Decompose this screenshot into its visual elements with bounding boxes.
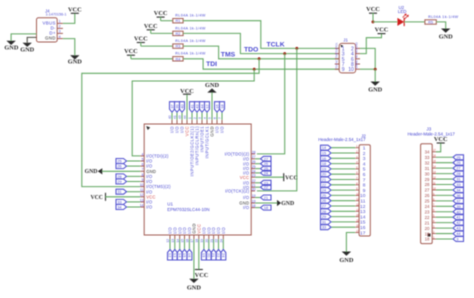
svg-text:18: 18 [219,104,224,109]
wire U1 left pin 28 [127,175,141,177]
pin stub U1 right VCC [251,176,255,178]
connector J1 (JTAG 2x5 header) body [339,43,355,73]
pin stub J2 pin 4 [355,163,359,165]
VCC supply (U1 top) [183,93,191,95]
pin stub J2 pin 5 [355,168,359,170]
flag node 31 (J2 pin 15) [321,219,332,224]
flag node 43 (U1 top) [195,102,200,113]
flag node 36 (J3 row 9) [453,193,464,198]
wire U1 left VCC [106,196,141,198]
svg-text:39: 39 [456,204,461,209]
wire J3 row 12 [436,211,453,213]
pin stub J1 pin 8 [356,63,360,65]
pin stub J1 pin 10 [356,68,360,70]
svg-text:28: 28 [425,182,430,187]
pin stub J2 pin 11 [355,200,359,202]
pin stub U1 bottom I/O [184,235,186,239]
svg-text:EPM7032SLC44-10N: EPM7032SLC44-10N [167,207,209,212]
svg-text:VCC: VCC [180,88,194,95]
pin stub U1 top I/O [181,120,183,124]
svg-text:8: 8 [363,183,366,189]
svg-text:29: 29 [117,179,122,184]
svg-text:Header-Male-2.54_1x17: Header-Male-2.54_1x17 [408,132,456,137]
svg-text:I/O: I/O [146,205,153,210]
wire J3 row 8 [436,189,453,191]
pin stub U1 right I/O(TDO)(2) [251,153,255,155]
wire U1 bottom pin 20 [208,239,210,249]
wire J1 pin2 to ground rail [360,48,375,69]
flag node 21 (U1 bottom) [211,250,216,261]
svg-text:24: 24 [221,253,226,258]
flag node 33 (J3 row 7) [453,182,464,187]
wire TDO: R2 to J1 pin3 [183,33,339,53]
wire U1 right pin 27 [255,158,260,160]
wire J2 pin 11 [331,200,355,202]
flag node 14 (U1 bottom) [177,250,182,261]
svg-text:33: 33 [425,155,430,160]
wire J3 row 2 [436,156,453,158]
pin1 marker J1 [340,45,343,48]
svg-text:2: 2 [363,151,366,157]
wire J3 row 4 [436,167,453,169]
pin stub U1 bottom I/O [213,235,215,239]
wire TCLK: R1 to J1 pin1 [183,21,339,49]
flag node 14 (J2 pin 1) [321,145,332,150]
svg-text:16: 16 [187,253,192,258]
svg-text:U1: U1 [167,201,173,206]
pin stub U1 top INPUT/GCLK1 [206,120,208,124]
svg-text:34: 34 [456,187,461,192]
pin stub J3 row 2 [432,156,436,158]
pin stub U1 left I/O [140,160,144,162]
svg-text:I/O(TCK)(2): I/O(TCK)(2) [225,189,249,194]
pin stub U1 bottom I/O [218,235,220,239]
flag node 26 (U1 left) [116,164,127,169]
flag node 16 (U1 top) [215,102,220,113]
flag node 41 (U1 top) [190,102,195,113]
ground (U1 bottom) [189,279,198,283]
flag node 28 (U1 left) [116,174,127,179]
svg-text:34: 34 [425,150,430,155]
flag node 20 (U1 bottom) [206,250,211,261]
svg-text:7: 7 [142,168,144,172]
pin stub U1 top INPUT/OE2/GCLK2(1) [191,120,193,124]
pin stub U1 left I/O [140,181,144,183]
wire VCC rail to U1 top [186,94,188,120]
pin stub U1 right I/O [251,172,255,174]
pin stub U1 right I/O [251,168,255,170]
svg-text:RL04A 1k-1/4W: RL04A 1k-1/4W [175,52,206,56]
svg-text:21: 21 [425,220,430,225]
svg-text:4: 4 [363,161,366,167]
svg-text:33: 33 [322,225,327,230]
VCC supply (R2) [147,29,155,31]
wire VCC stem R4 [130,55,132,59]
svg-text:14: 14 [360,214,366,220]
svg-text:TMS: TMS [335,53,338,58]
pin stub U1 top VCC [186,120,188,124]
svg-text:13: 13 [360,209,366,215]
svg-text:25: 25 [456,155,461,160]
pin stub J4 pin 3 [57,32,63,34]
junction TCLK [295,47,298,50]
svg-text:21: 21 [322,177,327,182]
pin stub U1 left VCC [140,196,144,198]
wire J3 row 9 [436,194,453,196]
pin stub J2 pin 10 [355,194,359,196]
wire VCC stem R3 [140,43,142,47]
pin stub J3 row 15 [432,227,436,229]
wire U1 bottom VCC down [198,239,200,269]
flag node 26 (U1 right) [261,161,272,166]
resistor R4 [173,57,183,61]
flag node 19 (J2 pin 5) [321,166,332,171]
flag node 20 (J2 pin 6) [321,172,332,177]
wire U1 left pin 31 [127,191,141,193]
pin stub U1 left I/O [140,191,144,193]
junction TDO [283,52,286,55]
pin stub U1 left I/O [140,206,144,208]
wire U1 right GND [255,202,277,204]
junction TMS [258,57,261,60]
wire to U1 top pin 172 [171,112,173,120]
svg-text:18: 18 [322,161,327,166]
wire VCC to R2 [151,32,173,34]
svg-text:6: 6 [142,163,144,167]
pin stub U1 left I/O [140,175,144,177]
svg-text:10: 10 [140,183,144,187]
svg-text:31: 31 [425,166,430,171]
svg-text:GND: GND [20,47,34,54]
svg-text:22: 22 [322,182,327,187]
svg-text:22: 22 [264,185,269,190]
svg-text:NC: NC [356,59,359,63]
svg-text:11: 11 [140,188,144,192]
svg-text:RL04A 1k-1/4W: RL04A 1k-1/4W [175,14,206,18]
resistor R1 [173,19,183,23]
wire VCC stem R1 [160,17,162,21]
pin stub J3 row 11 [432,205,436,207]
wire U1 bottom pin 22 [218,239,220,249]
svg-text:27: 27 [322,204,327,209]
wire to U1 top pin 207 [206,112,208,120]
flag node 22 (U1 bottom) [216,250,221,261]
pin stub U1 right GND [251,202,255,204]
svg-text:32: 32 [425,160,430,165]
pin stub J4 pin 2 [57,27,63,29]
svg-text:31: 31 [456,177,461,182]
pin stub J1 pin 3 [335,53,339,55]
wire U1 bottom pin 19 [203,239,205,249]
svg-text:TMS: TMS [221,52,236,59]
svg-text:GND: GND [68,58,82,65]
svg-text:26: 26 [456,160,461,165]
svg-text:24: 24 [322,188,327,193]
pin stub J2 pin 6 [355,173,359,175]
svg-text:VCC: VCC [154,10,168,17]
connector J3 (Header-Male-2.54_1x17) body [421,144,433,244]
pin stub J1 pin 6 [356,58,360,60]
svg-text:VCC: VCC [90,195,103,201]
flag node 29 (J2 pin 14) [321,214,332,219]
pin stub J1 pin 2 [356,47,360,49]
wire J2 pin 15 [331,221,355,223]
wire VCC to R4 [131,58,173,60]
flag node 3 (J3 row 17) [453,237,464,242]
flag node 26 (J2 pin 11) [321,198,332,203]
wire LED cathode to R5 [404,21,425,23]
svg-text:GND: GND [281,201,294,207]
flag node 27 (U1 right) [261,156,272,161]
svg-text:J1: J1 [343,37,348,42]
svg-text:40: 40 [179,104,184,109]
pin stub J3 row 6 [432,178,436,180]
svg-text:I/O: I/O [243,195,250,200]
svg-text:34: 34 [117,205,122,210]
flag node 25 (J2 pin 10) [321,193,332,198]
flag node 12 (U1 bottom) [168,250,173,261]
svg-text:NC: NC [335,59,338,63]
svg-text:RL04A 1k-1/4W: RL04A 1k-1/4W [175,39,206,43]
svg-text:GND: GND [439,33,453,40]
svg-text:VCC: VCC [285,175,298,181]
ground (J4 shield1) [6,41,15,45]
flag node 43 (J3 row 15) [453,226,464,231]
svg-text:VCC: VCC [68,6,82,13]
pin stub J4 pin 4 [57,38,63,40]
wire U1 bottom GND down [193,239,195,279]
svg-text:7: 7 [363,177,366,183]
svg-text:28: 28 [252,150,256,154]
svg-text:29: 29 [322,214,327,219]
svg-text:41: 41 [456,215,461,220]
VCC supply (U1 left) [105,193,107,201]
svg-text:Header-Male-2.54_1x17: Header-Male-2.54_1x17 [318,137,366,142]
svg-text:26: 26 [425,193,430,198]
svg-text:3: 3 [59,30,61,34]
wire VCC to R3 [141,45,173,47]
flag node 24 (U1 right) [261,170,272,175]
wire U1 bottom pin 12 [169,239,171,249]
svg-text:4: 4 [59,35,61,39]
flag node 18 (U1 right) [261,205,272,210]
resistor R2 [173,31,183,35]
wire J3 row 11 [436,205,453,207]
svg-text:36: 36 [456,193,461,198]
svg-text:21: 21 [264,195,269,200]
wire J2 pin 16 [331,226,355,228]
svg-text:6: 6 [363,172,366,178]
svg-text:26: 26 [117,164,122,169]
svg-text:R2: R2 [175,32,180,36]
wire R5 to ground [436,22,445,29]
pin stub U1 right I/O [251,163,255,165]
resistor R3 [173,44,183,48]
wire U1 left pin 25 [127,160,141,162]
wire J2 pin 6 [331,173,355,175]
pin stub U1 top INPUT/GCLRn(1) [196,120,198,124]
pin stub J3 row 16 [432,233,436,235]
pin stub U1 right I/O(TCK)(2) [251,190,255,192]
svg-text:44: 44 [456,231,461,236]
pin stub U1 right I/O [251,197,255,199]
wire U1 bottom pin 15 [184,239,186,249]
svg-text:GND: GND [356,42,359,48]
wire J3 row 7 [436,184,453,186]
wire J2 pin 8 [331,184,355,186]
flag node 13 (U1 bottom) [172,250,177,261]
wire U1 bottom pin 24 [222,239,224,249]
svg-text:TDO: TDO [335,48,338,53]
pin stub U1 top I/O [176,120,178,124]
pin stub J3 row 3 [432,162,436,164]
svg-text:VCC: VCC [144,23,158,30]
flag node 31 (J3 row 6) [453,177,464,182]
svg-text:28: 28 [322,209,327,214]
pin stub U1 top I/O [216,120,218,124]
svg-text:10: 10 [348,67,354,73]
svg-text:17: 17 [360,230,366,236]
VCC supply (J1) [378,33,386,35]
svg-text:GND: GND [45,36,56,41]
wire J2 pin 3 [331,157,355,159]
flag node 21 (U1 right) [261,195,272,200]
pin stub J2 pin 17 [355,232,359,234]
pin stub U1 bottom I/O [179,235,181,239]
svg-text:14: 14 [140,203,144,207]
pin stub J3 row 4 [432,167,436,169]
pin stub U1 bottom VCC [198,235,200,239]
ground (J4 pin4) [70,55,79,59]
junction J1 ground [374,68,377,71]
flag node 25 (U1 right) [261,166,272,171]
flag node 24 (U1 bottom) [221,250,226,261]
flag node 37 (J3 row 10) [453,198,464,203]
pin stub J2 pin 15 [355,221,359,223]
pin stub J3 row 5 [432,173,436,175]
pin stub J2 pin 13 [355,210,359,212]
flag node 34 (J3 row 8) [453,188,464,193]
pin stub U1 bottom I/O [188,235,190,239]
flag node 39 (U1 top) [175,102,180,113]
svg-text:R4: R4 [175,57,180,61]
svg-text:VCC: VCC [375,26,389,33]
wire to U1 top pin 202 [201,112,203,120]
svg-text:LED: LED [398,9,407,14]
VCC supply (LED) [369,12,377,14]
pin stub J2 pin 8 [355,184,359,186]
wire TDI: R4 to J1 pin9 [183,59,339,69]
wire J2 pin17 to ground [346,233,355,252]
svg-text:31: 31 [117,189,122,194]
svg-text:4: 4 [142,152,144,156]
wire J3 row 15 [436,227,453,229]
svg-text:30: 30 [425,171,430,176]
svg-text:12: 12 [140,193,144,197]
wire to U1 top pin 222 [221,112,223,120]
pin stub J3 row 14 [432,222,436,224]
wire U1 left pin 33 [127,201,141,203]
wire TMS: R3 to J1 pin5 [183,46,339,59]
wire U1 right pin 24 [255,172,260,174]
svg-text:15: 15 [360,220,366,226]
pin stub J1 pin 1 [335,47,339,49]
wire TDO to U1 TDO pin [257,54,285,154]
wire VCC to LED [372,13,374,22]
pin stub U1 right I/O [251,158,255,160]
svg-text:20: 20 [425,226,430,231]
pin stub U1 top GND [211,120,213,124]
svg-text:11: 11 [360,199,365,205]
flag node 41 (J3 row 13) [453,215,464,220]
svg-text:26: 26 [322,198,327,203]
wire J2 pin 1 [331,147,355,149]
VCC supply (R3) [137,42,145,44]
svg-text:2: 2 [59,25,61,29]
svg-text:GND: GND [187,285,201,292]
flag node 15 (J2 pin 2) [321,151,332,156]
wire J2 pin 12 [331,205,355,207]
svg-text:12: 12 [360,204,366,210]
VCC supply (J4) [71,12,79,14]
wire J2 pin 5 [331,168,355,170]
pin stub J3 row 17 [432,238,436,240]
svg-text:19: 19 [425,231,430,236]
flag node 33 (U1 left) [116,199,127,204]
flag node 37 (U1 top) [170,102,175,113]
svg-text:9: 9 [363,188,366,194]
pin stub J2 pin 3 [355,157,359,159]
svg-text:27: 27 [425,188,430,193]
wire J2 pin 4 [331,163,355,165]
pin stub J3 row 10 [432,200,436,202]
wire TCLK to U1 TCK pin [257,48,297,191]
pin stub U1 bottom I/O [174,235,176,239]
wire U1 right pin 18 [255,207,260,209]
pin stub U1 top I/O [171,120,173,124]
svg-text:TDI: TDI [335,64,338,68]
wire U1 right pin 23 [255,182,260,184]
wire J2 pin 2 [331,152,355,154]
pin stub J2 pin 9 [355,189,359,191]
wire VCC to LED anode [373,21,397,23]
svg-text:R3: R3 [175,45,180,49]
wire U1 right VCC [255,176,284,178]
pin stub U1 bottom I/O [208,235,210,239]
svg-text:14: 14 [322,145,327,150]
pin stub J3 row 8 [432,189,436,191]
wire J3 row 14 [436,222,453,224]
flag node 27 (J3 row 4) [453,166,464,171]
pin stub J1 pin 4 [356,53,360,55]
svg-text:9: 9 [342,67,345,73]
pin stub J3 row 9 [432,194,436,196]
svg-text:1: 1 [59,20,61,24]
flag node 16 (J2 pin 3) [321,156,332,161]
wire J3 row 3 [436,162,453,164]
svg-text:22: 22 [425,215,430,220]
wire to U1 top pin 177 [176,112,178,120]
pin stub J1 pin 5 [335,58,339,60]
flag node 22 (U1 right) [261,185,272,190]
svg-text:25: 25 [425,199,430,204]
pin stub J4 pin 1 [57,22,63,24]
wire U1 bottom pin 21 [213,239,215,249]
svg-text:23: 23 [425,209,430,214]
svg-text:15: 15 [182,253,187,258]
flag node 34 (U1 left) [116,205,127,210]
wire J3 pin17 to VCC [436,143,441,152]
